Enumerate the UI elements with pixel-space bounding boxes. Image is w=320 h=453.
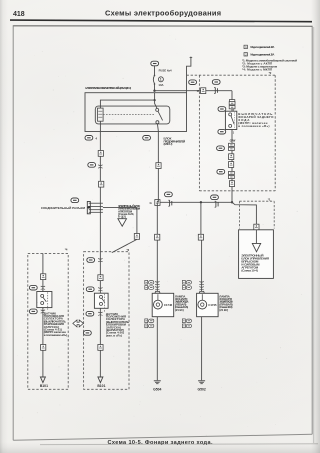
svg-text:Схемы электрооборудования: Схемы электрооборудования [105, 9, 221, 18]
svg-text:Модели с двигателем L15A: Модели с двигателем L15A [250, 53, 274, 57]
svg-text:G504: G504 [153, 388, 161, 392]
svg-text:G: G [150, 201, 153, 205]
svg-text:C1745: C1745 [208, 303, 217, 307]
svg-text:*4: *4 [65, 248, 68, 252]
svg-text:Модели с двигателем L13A: Модели с двигателем L13A [250, 45, 274, 49]
svg-text:*2: *2 [269, 71, 272, 75]
svg-text:(21 Вт): (21 Вт) [219, 308, 228, 312]
svg-text:G502: G502 [197, 388, 205, 392]
svg-text:(21 Вт): (21 Вт) [175, 308, 184, 312]
svg-text:(вкл. в «R»): (вкл. в «R») [106, 333, 122, 337]
svg-text:10A: 10A [158, 83, 163, 87]
svg-text:B101: B101 [97, 384, 105, 388]
svg-text:в положении «R»): в положении «R») [238, 124, 269, 128]
svg-text:*4: Модели с МКПП: *4: Модели с МКПП [242, 68, 272, 72]
svg-text:FUSE №4: FUSE №4 [159, 68, 172, 72]
svg-text:в положении «R»): в положении «R») [44, 333, 67, 337]
svg-text:1: 1 [233, 131, 235, 134]
svg-text:(Схема 10-4): (Схема 10-4) [241, 269, 257, 273]
svg-text:418: 418 [13, 11, 25, 18]
svg-text:*1: *1 [268, 197, 271, 201]
svg-text:1: 1 [160, 78, 162, 82]
svg-text:C1746: C1746 [164, 303, 173, 307]
svg-text:*3: *3 [127, 248, 130, 252]
svg-text:G/W: G/W [230, 139, 236, 143]
svg-text:(MICU): (MICU) [164, 142, 173, 146]
svg-text:4: 4 [95, 136, 97, 140]
svg-text:B101: B101 [40, 384, 48, 388]
svg-text:СОЕДИНИТЕЛЬНЫЙ РАЗЪЕМ: СОЕДИНИТЕЛЬНЫЙ РАЗЪЕМ [41, 206, 86, 210]
svg-text:Схема 10-5. Фонари заднего ход: Схема 10-5. Фонари заднего хода. [108, 440, 213, 446]
svg-text:БЛОК УПРАВЛЕНИЯ МУЛЬТИПЛЕКСНОЙ: БЛОК УПРАВЛЕНИЯ МУЛЬТИПЛЕКСНОЙ ЦЕПЬЮ (MI… [85, 86, 131, 90]
